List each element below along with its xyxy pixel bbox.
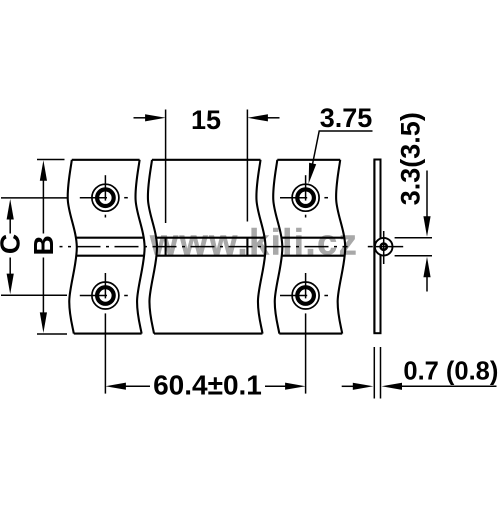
dimension 15: extension line right <box>246 110 248 222</box>
left leaf top edge <box>72 159 140 161</box>
left leaf knuckle joint line lower <box>76 255 144 257</box>
dimension 0.7 (0.8): extension line left <box>373 347 375 399</box>
dimension C: extension line bottom <box>1 294 67 296</box>
middle segment top edge <box>152 159 261 161</box>
right leaf knuckle joint line upper <box>281 237 344 239</box>
side view plate outline <box>374 160 380 334</box>
dimension 3.3(3.5): extension line bottom <box>395 255 432 257</box>
left leaf knuckle joint line upper <box>75 237 143 239</box>
svg-text:0.7 (0.8): 0.7 (0.8) <box>403 358 498 386</box>
screw hole top-right: countersink circle <box>292 184 319 211</box>
dimension B: extension line top <box>37 159 65 161</box>
screw hole top-left: bore circle <box>97 189 114 206</box>
dimension 15: dimension line + arrows <box>134 117 147 119</box>
knuckle left edge <box>165 238 167 256</box>
right leaf break line left <box>273 160 282 334</box>
screw hole top-left: countersink circle <box>92 184 119 211</box>
screw hole top-right: center lines <box>280 175 328 217</box>
side view knuckle inner circle <box>381 244 387 250</box>
knuckle right edge <box>246 238 248 256</box>
right leaf top edge <box>277 159 340 161</box>
right leaf break line right <box>336 160 345 334</box>
dimension C: dimension line + arrows <box>9 216 11 234</box>
screw hole bottom-right: bore circle <box>297 287 314 304</box>
middle segment break line right <box>256 160 265 334</box>
right leaf knuckle joint line lower <box>281 255 344 257</box>
screw hole top-left: center lines <box>80 175 128 217</box>
svg-text:C: C <box>0 234 25 254</box>
dimension 3.75: leader line <box>310 131 372 175</box>
right leaf bottom edge <box>279 333 342 335</box>
side view plate left edge (over knuckle) <box>373 160 375 334</box>
left leaf break line left <box>68 160 77 334</box>
middle segment knuckle joint line upper <box>155 237 264 239</box>
screw hole bottom-right: center lines <box>280 273 328 394</box>
dimension 60.4: dimension line + arrows <box>105 383 126 390</box>
middle segment knuckle joint line lower <box>156 255 264 257</box>
svg-text:60.4±0.1: 60.4±0.1 <box>153 369 262 400</box>
hinge axis center line <box>60 246 348 248</box>
left leaf break line right <box>135 160 144 334</box>
screw hole bottom-left: bore circle <box>97 287 114 304</box>
dimension B: dimension line + arrows <box>42 178 44 234</box>
middle segment break line left <box>148 160 157 334</box>
svg-text:3.3(3.5): 3.3(3.5) <box>395 112 425 205</box>
dimension 3.3(3.5): dimension line + arrows <box>426 171 428 218</box>
left leaf bottom edge <box>74 333 142 335</box>
side view knuckle vertical center line <box>383 231 385 264</box>
screw hole bottom-right: countersink circle <box>292 282 319 309</box>
svg-text:3.75: 3.75 <box>320 103 373 133</box>
side view axis center line <box>368 246 373 248</box>
screw hole bottom-left: countersink circle <box>92 282 119 309</box>
screw hole top-right: bore circle <box>297 189 314 206</box>
svg-text:15: 15 <box>191 105 221 135</box>
svg-text:B: B <box>28 235 59 255</box>
dimension 0.7 (0.8): extension line right <box>380 347 382 399</box>
dimension 0.7 (0.8): dimension line + arrows <box>342 385 355 387</box>
dimension 15: extension line left <box>165 110 167 224</box>
side view knuckle outer circle <box>375 238 393 256</box>
middle segment bottom edge <box>154 333 263 335</box>
dimension 3.3(3.5): extension line top <box>395 237 432 239</box>
screw hole bottom-left: center lines <box>80 273 128 394</box>
dimension B: extension line bottom <box>37 333 67 335</box>
dimension C: extension line top <box>1 197 67 199</box>
